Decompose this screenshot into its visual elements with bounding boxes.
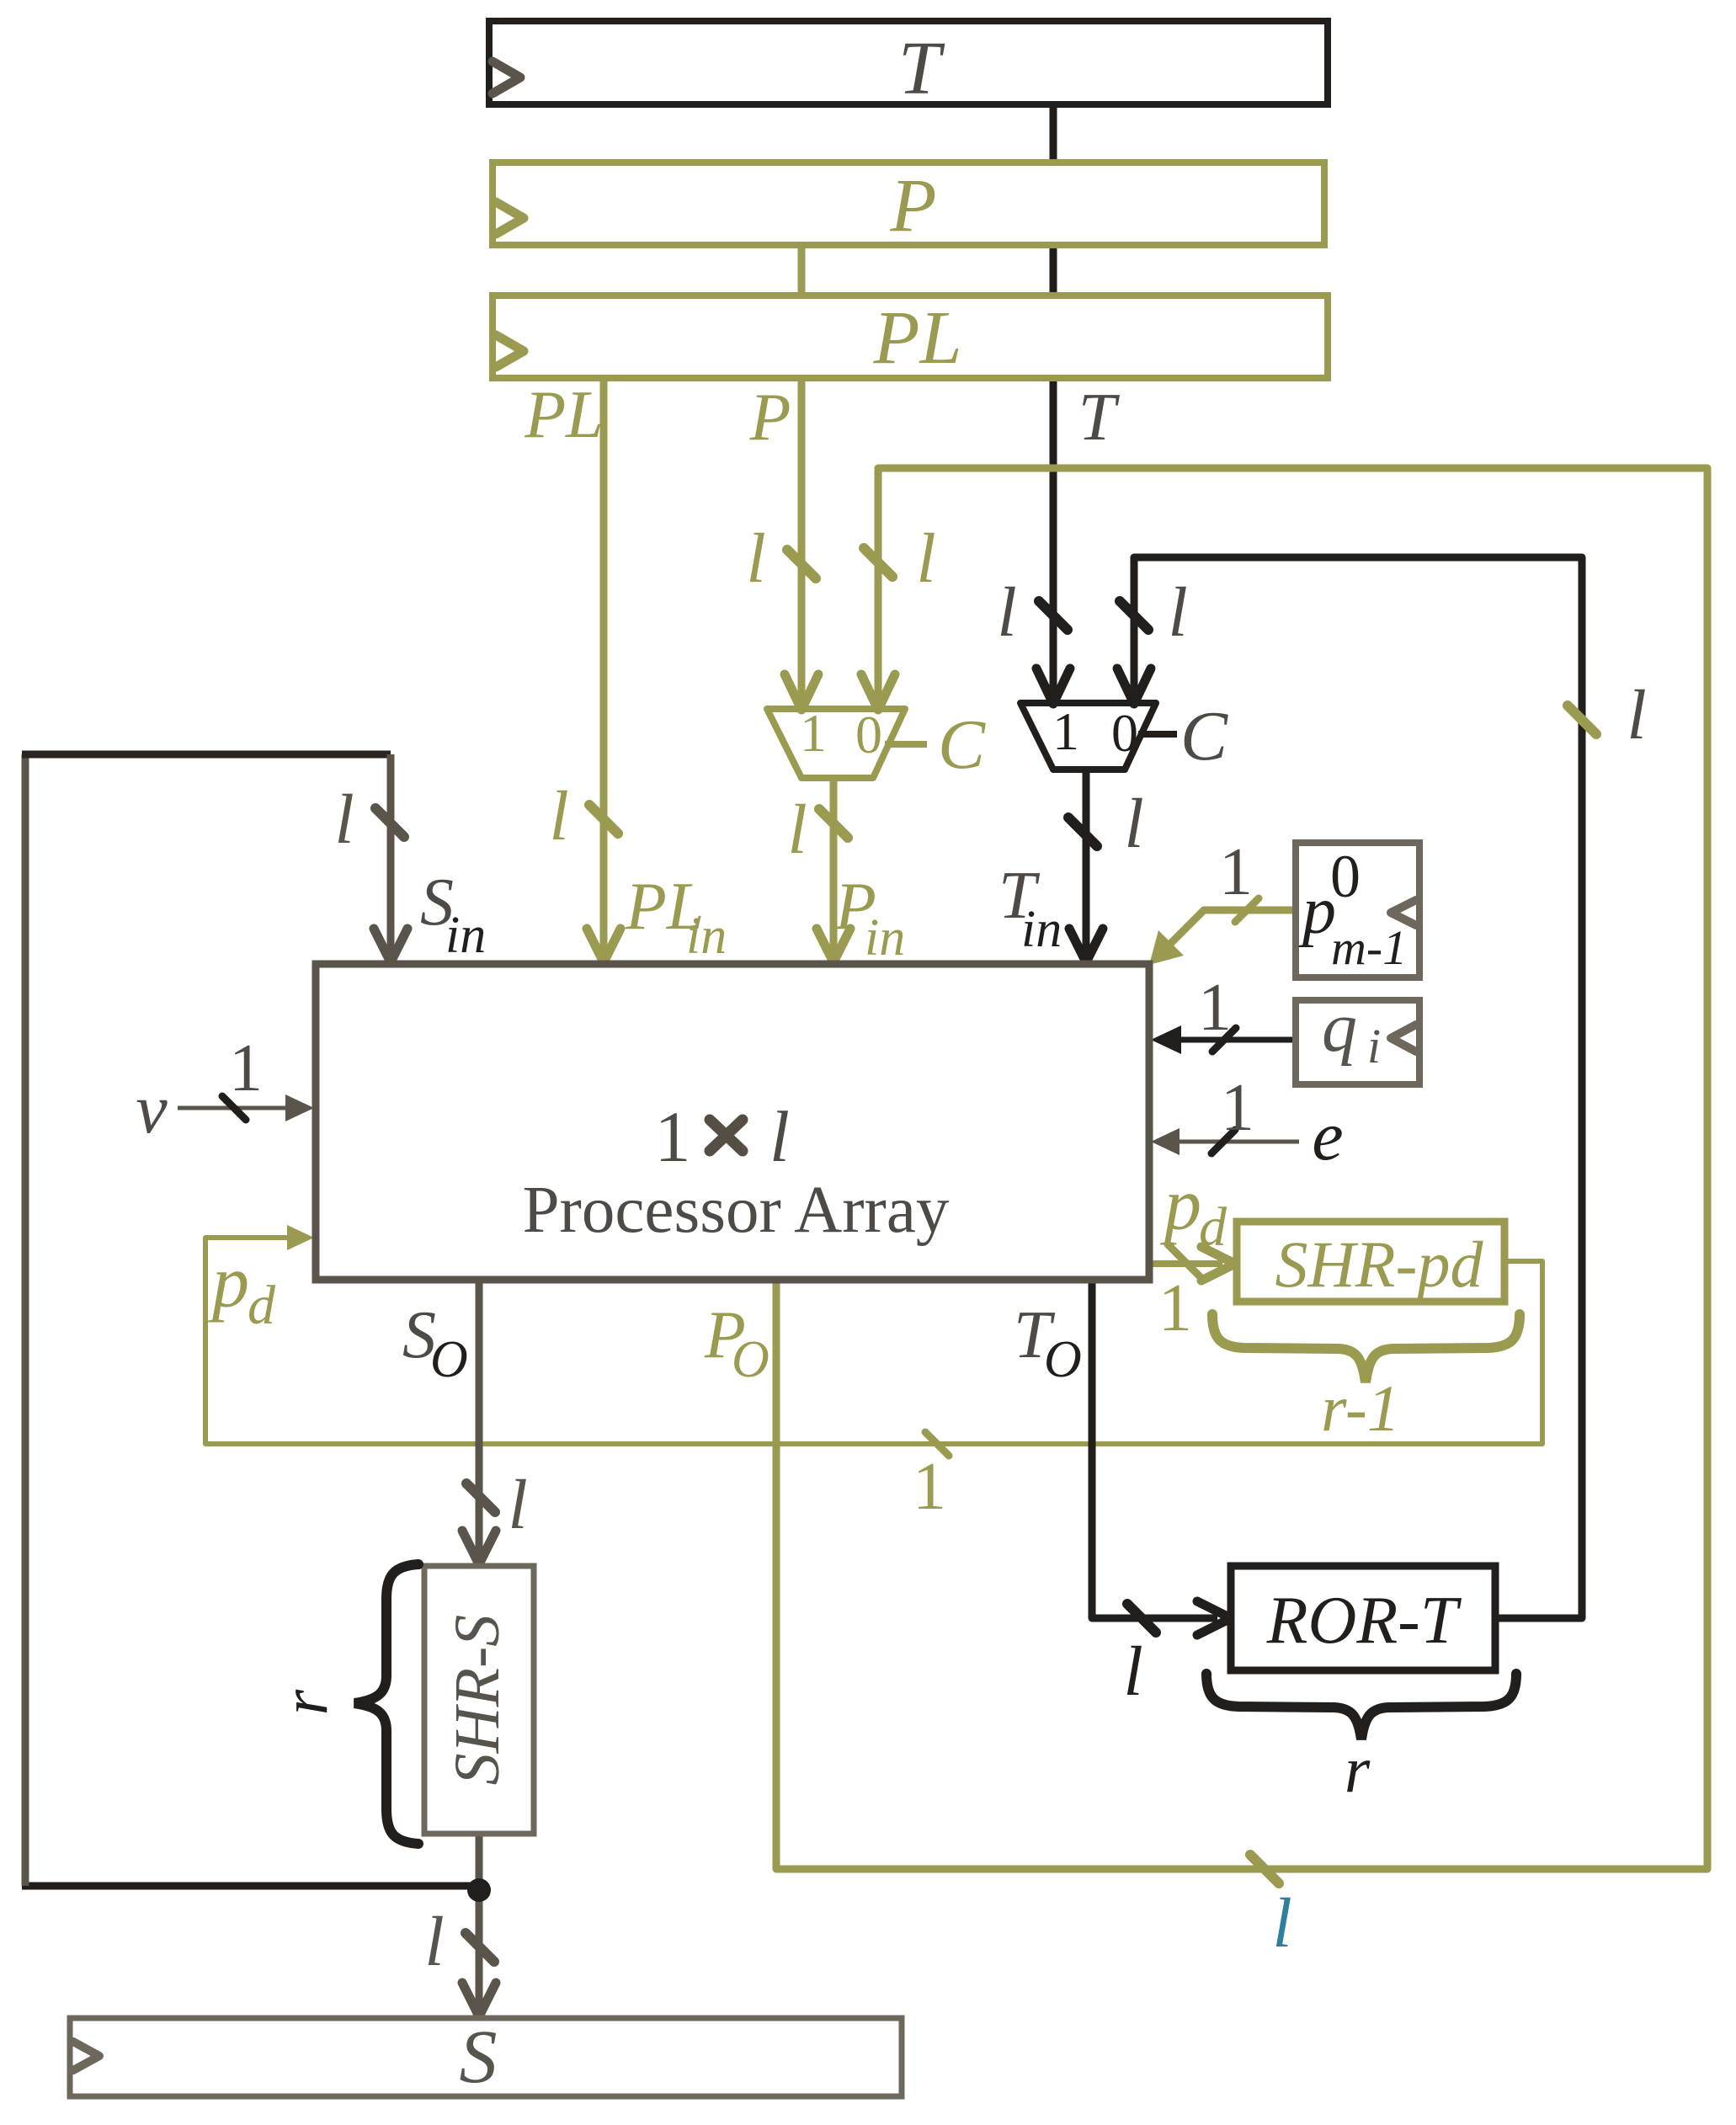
slash bus-width on S result wire bbox=[466, 1933, 494, 1962]
clock chevron register P bbox=[496, 202, 524, 234]
slash width-1 on pd output wire bbox=[1168, 1244, 1200, 1276]
svg-text:P: P bbox=[890, 164, 937, 248]
arrowhead e (solid) bbox=[1151, 1128, 1180, 1155]
svg-text:m-1: m-1 bbox=[1331, 920, 1407, 975]
svg-text:l: l bbox=[549, 777, 568, 855]
SHR-S box bbox=[424, 1566, 534, 1834]
svg-text:1: 1 bbox=[229, 1031, 263, 1105]
clock chevron pm-1 bbox=[1391, 900, 1416, 925]
svg-text:p: p bbox=[207, 1242, 249, 1323]
svg-text:l: l bbox=[1124, 785, 1143, 863]
wire TO from array down and into ROR-T bbox=[1092, 1280, 1217, 1618]
svg-text:in: in bbox=[1021, 901, 1062, 958]
wire T from register T down to T-mux input 1 bbox=[1050, 101, 1057, 701]
svg-text:1: 1 bbox=[1221, 1071, 1254, 1145]
mux T select line C bbox=[1138, 731, 1177, 738]
svg-text:1: 1 bbox=[913, 1450, 946, 1524]
wire pm-1 output to array corner bbox=[1168, 910, 1296, 946]
svg-text:1: 1 bbox=[655, 1096, 691, 1177]
svg-text:l: l bbox=[334, 780, 354, 859]
slash width-1 on pd loop bbox=[925, 1432, 949, 1456]
svg-text:d: d bbox=[248, 1275, 276, 1336]
register S bbox=[70, 2018, 902, 2096]
svg-text:l: l bbox=[1627, 676, 1646, 754]
clock chevron register T bbox=[493, 61, 520, 93]
svg-text:1: 1 bbox=[1219, 835, 1253, 909]
svg-text:l: l bbox=[746, 519, 765, 598]
clock chevron qi bbox=[1391, 1025, 1416, 1052]
svg-text:C: C bbox=[938, 706, 986, 784]
arrowhead Sin into array bbox=[374, 929, 407, 962]
arrowhead Pin into array bbox=[817, 929, 850, 962]
svg-text:O: O bbox=[1044, 1331, 1082, 1388]
svg-text:l: l bbox=[769, 1096, 790, 1177]
svg-text:S: S bbox=[460, 2016, 498, 2099]
slash bus-width on SO wire bbox=[466, 1483, 495, 1512]
wire S result from SHR-S down to register S bbox=[476, 1834, 483, 2011]
slash bus-width on PL wire bbox=[589, 805, 618, 833]
svg-text:l: l bbox=[916, 519, 935, 598]
wire e input to array bbox=[1174, 1140, 1299, 1144]
brace r-1 under SHR-pd bbox=[1212, 1314, 1520, 1382]
svg-text:0: 0 bbox=[1111, 703, 1138, 763]
wire P from register P down to P-mux input 1 bbox=[798, 242, 806, 708]
arrowhead pd into array left (solid) bbox=[287, 1225, 314, 1250]
svg-text:PL: PL bbox=[872, 296, 961, 380]
arrowhead PLin into array bbox=[587, 929, 620, 962]
arrowhead T feedback into T-mux input 0 bbox=[1117, 668, 1151, 704]
slash bus-width on T feedback vertical near mux bbox=[1120, 601, 1148, 630]
slash width-1 on qi wire bbox=[1212, 1028, 1236, 1052]
register T bbox=[489, 21, 1328, 104]
arrowhead P into P-mux bbox=[785, 674, 818, 710]
svg-text:l: l bbox=[1168, 573, 1187, 652]
svg-text:in: in bbox=[445, 907, 486, 964]
register P bbox=[493, 162, 1324, 245]
arrowhead Tin into array bbox=[1069, 929, 1103, 962]
svg-text:v: v bbox=[136, 1070, 168, 1148]
wire P-mux output to array Pin bbox=[830, 775, 838, 957]
svg-text:e: e bbox=[1312, 1097, 1343, 1175]
svg-text:C: C bbox=[1180, 697, 1228, 775]
svg-text:in: in bbox=[865, 909, 905, 967]
svg-text:PL: PL bbox=[524, 378, 603, 452]
svg-text:l: l bbox=[787, 791, 807, 869]
register qi box bbox=[1296, 1000, 1419, 1084]
wire olive P feedback loop: right vertical, top horizontal into P-mux input 0 bbox=[776, 468, 1707, 1869]
register PL bbox=[493, 296, 1328, 378]
slash bus-width on P feedback vertical bbox=[864, 548, 892, 577]
slash width-1 on e wire bbox=[1211, 1130, 1235, 1153]
brace r under ROR-T bbox=[1206, 1674, 1516, 1739]
wire v input to array bbox=[178, 1106, 290, 1110]
junction dot S feedback bbox=[467, 1878, 491, 1902]
svg-text:T: T bbox=[898, 27, 945, 110]
svg-text:SHR-S: SHR-S bbox=[442, 1615, 513, 1786]
slash bus-width (olive) on T feedback right vertical bbox=[1568, 706, 1596, 734]
svg-text:1: 1 bbox=[800, 703, 827, 763]
mux P (olive trapezoid) bbox=[767, 709, 905, 778]
ROR-T box bbox=[1231, 1566, 1495, 1670]
arrowhead SO into SHR-S bbox=[462, 1531, 496, 1564]
svg-text:l: l bbox=[508, 1466, 527, 1544]
svg-text:Processor Array: Processor Array bbox=[523, 1174, 950, 1247]
wire pd loop from SHR-pd back to array left bbox=[205, 1238, 1542, 1444]
arrowhead pd into SHR-pd (chevron) bbox=[1201, 1247, 1235, 1281]
arrowhead TO into ROR-T (chevron) bbox=[1197, 1601, 1231, 1635]
slash bus-width on Pin wire bbox=[819, 809, 848, 838]
slash bus-width on T wire bbox=[1039, 601, 1068, 630]
svg-text:1: 1 bbox=[1052, 701, 1079, 761]
svg-text:SHR-pd: SHR-pd bbox=[1275, 1228, 1484, 1301]
slash width-1 on v wire bbox=[222, 1096, 246, 1120]
wire pd output from array to SHR-pd bbox=[1149, 1260, 1222, 1267]
arrowhead T into T-mux bbox=[1036, 668, 1070, 704]
slash bus-width on Sin wire bbox=[375, 808, 404, 837]
svg-text:l: l bbox=[997, 573, 1016, 652]
arrowhead v (solid) bbox=[285, 1094, 314, 1121]
wire S feedback: bottom horizontal from junction to left bbox=[22, 1883, 479, 1890]
svg-text:O: O bbox=[732, 1331, 769, 1388]
processor array box bbox=[316, 964, 1149, 1280]
svg-text:P: P bbox=[749, 381, 791, 455]
svg-text:q: q bbox=[1322, 988, 1357, 1067]
wire SO from array down to SHR-S bbox=[476, 1280, 483, 1559]
svg-text:T: T bbox=[1078, 381, 1121, 455]
svg-text:O: O bbox=[430, 1331, 468, 1388]
svg-text:r: r bbox=[1345, 1733, 1371, 1806]
svg-text:r-1: r-1 bbox=[1321, 1371, 1400, 1445]
svg-text:l: l bbox=[424, 1903, 444, 1981]
wire qi output to array bbox=[1174, 1037, 1296, 1043]
slash bus-width on Tin wire bbox=[1068, 818, 1097, 846]
svg-text:d: d bbox=[1199, 1196, 1227, 1258]
wire S feedback: top horizontal bbox=[22, 751, 391, 759]
register pm-1 box bbox=[1296, 843, 1419, 977]
svg-text:p: p bbox=[1159, 1164, 1201, 1246]
svg-text:ROR-T: ROR-T bbox=[1266, 1584, 1462, 1658]
brace r left of SHR-S bbox=[354, 1564, 418, 1844]
wire PL from register PL down to processor array PLin bbox=[600, 375, 608, 957]
svg-text:0: 0 bbox=[855, 705, 882, 764]
clock chevron register S bbox=[73, 2042, 99, 2070]
svg-text:r: r bbox=[268, 1689, 341, 1715]
arrowhead pm-1 (solid, diagonal) bbox=[1149, 930, 1184, 965]
wire black T feedback loop from ROR-T up into T-mux input 0 bbox=[1134, 557, 1582, 1618]
svg-text:1: 1 bbox=[1198, 971, 1232, 1045]
arrowhead qi (solid) bbox=[1151, 1025, 1181, 1054]
svg-text:1: 1 bbox=[1158, 1271, 1192, 1345]
mux T (black trapezoid) bbox=[1020, 703, 1156, 770]
arrowhead into register S bbox=[462, 1983, 496, 2016]
SHR-pd box bbox=[1237, 1222, 1504, 1302]
clock chevron register PL bbox=[496, 335, 524, 367]
slash bus-width on P feedback bottom run bbox=[1250, 1855, 1279, 1883]
wire T-mux output to array Tin bbox=[1083, 766, 1090, 957]
svg-text:l: l bbox=[1272, 1884, 1291, 1963]
svg-text:l: l bbox=[1123, 1632, 1142, 1711]
wire S feedback: left vertical bbox=[22, 754, 29, 1886]
slash width-1 on pm-1 wire bbox=[1235, 898, 1259, 922]
slash bus-width on TO wire bbox=[1127, 1604, 1156, 1632]
svg-text:i: i bbox=[1367, 1019, 1381, 1073]
wire Sin down into array bbox=[387, 754, 395, 957]
svg-text:in: in bbox=[686, 908, 727, 965]
mux P select line C bbox=[885, 741, 927, 748]
slash bus-width on P wire bbox=[787, 550, 816, 578]
arrowhead P feedback into P-mux input 0 bbox=[861, 674, 895, 710]
